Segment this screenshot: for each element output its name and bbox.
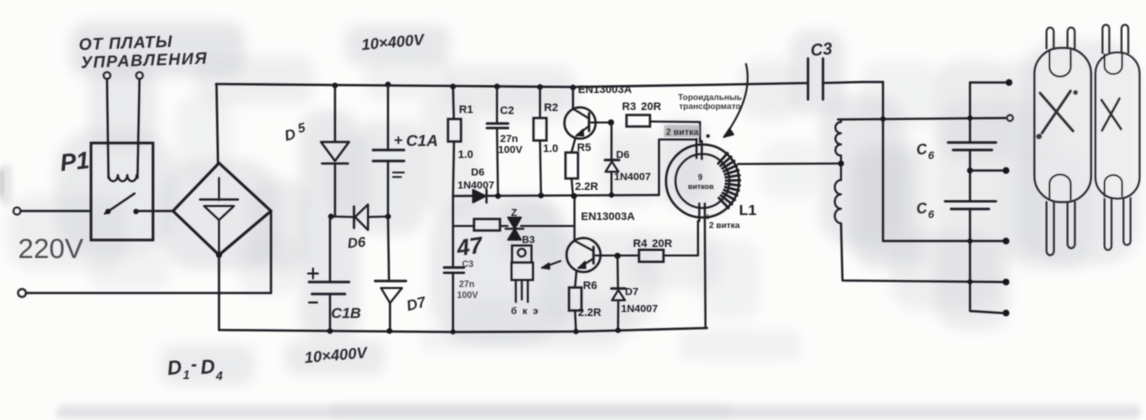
svg-text:EN13003A: EN13003A xyxy=(578,84,632,96)
svg-text:R6: R6 xyxy=(583,280,597,292)
svg-text:1.0: 1.0 xyxy=(458,149,473,161)
svg-text:C3: C3 xyxy=(810,39,834,60)
svg-text:D6: D6 xyxy=(347,233,366,251)
svg-text:47: 47 xyxy=(454,231,485,261)
svg-text:C1A: C1A xyxy=(406,133,438,150)
svg-text:D6: D6 xyxy=(616,149,630,161)
svg-text:6: 6 xyxy=(928,209,935,221)
svg-text:+: + xyxy=(394,132,403,149)
svg-text:6: 6 xyxy=(928,150,935,162)
svg-text:9: 9 xyxy=(698,173,703,182)
svg-text:б к э: б к э xyxy=(511,306,540,317)
svg-text:C3: C3 xyxy=(462,259,474,269)
svg-text:C2: C2 xyxy=(500,105,514,117)
svg-text:трансформато: трансформато xyxy=(679,101,741,111)
svg-text:20R: 20R xyxy=(641,101,661,113)
svg-text:2 витка: 2 витка xyxy=(709,220,740,230)
svg-text:100V: 100V xyxy=(457,290,478,300)
svg-text:1.0: 1.0 xyxy=(543,143,558,155)
svg-text:R4: R4 xyxy=(633,238,648,250)
svg-text:1N4007: 1N4007 xyxy=(458,180,495,192)
svg-text:D6: D6 xyxy=(471,167,485,179)
svg-text:L1: L1 xyxy=(739,202,757,219)
svg-text:EN13003A: EN13003A xyxy=(581,211,635,223)
svg-text:P1: P1 xyxy=(59,147,91,177)
svg-text:2 витка: 2 витка xyxy=(666,127,699,137)
svg-text:R3: R3 xyxy=(622,101,636,113)
svg-text:B3: B3 xyxy=(522,235,535,246)
svg-text:100V: 100V xyxy=(498,144,523,156)
svg-text:27n: 27n xyxy=(459,279,475,289)
svg-text:2.2R: 2.2R xyxy=(575,181,598,193)
svg-text:1N4007: 1N4007 xyxy=(621,303,658,315)
svg-text:R1: R1 xyxy=(459,104,473,116)
svg-text:D: D xyxy=(166,357,183,380)
svg-text:1N4007: 1N4007 xyxy=(614,171,651,183)
svg-text:D: D xyxy=(200,356,216,379)
svg-text:R2: R2 xyxy=(544,102,558,114)
svg-text:4: 4 xyxy=(215,369,223,383)
svg-text:1: 1 xyxy=(183,368,190,382)
svg-text:220V: 220V xyxy=(18,233,84,264)
svg-text:-: - xyxy=(191,354,197,374)
svg-text:R5: R5 xyxy=(577,142,591,154)
svg-text:2.2R: 2.2R xyxy=(578,307,601,319)
svg-text:витков: витков xyxy=(688,182,714,191)
svg-text:D7: D7 xyxy=(625,286,639,298)
svg-text:C1B: C1B xyxy=(331,305,361,322)
svg-text:20R: 20R xyxy=(652,238,672,250)
svg-text:Z: Z xyxy=(511,208,517,219)
